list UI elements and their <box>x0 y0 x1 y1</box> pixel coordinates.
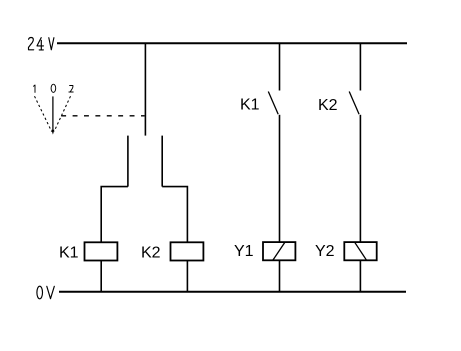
wire: left throw horizontal jog to K1 coil branch <box>101 187 128 243</box>
wire: K2 coil to 0V rail <box>186 261 188 293</box>
selector switch S1 dashed throw to position 2 <box>54 96 70 131</box>
net 0V rail label <box>37 286 54 299</box>
contact K2 normally-open blade <box>349 92 359 115</box>
svg-text:K1: K1 <box>59 244 79 261</box>
changeover contact throw contact 2 (right fixed contact) <box>161 136 163 187</box>
wire: 0V bottom power rail <box>59 291 406 293</box>
wire: K1 contact to Y1 coil <box>279 115 281 243</box>
wire: pole branch from 24V rail to changeover contact <box>144 43 146 135</box>
wire: branch 4 from 24V rail to K2 contact <box>359 43 361 90</box>
selector switch S1 dashed throw to position 1 <box>35 96 52 131</box>
selector switch S1 position label 0 <box>51 84 56 92</box>
solenoid valve coil Y2 box <box>344 242 376 260</box>
selector switch S1 position label 2 <box>69 86 73 93</box>
contact K1 normally-open blade <box>268 92 278 115</box>
svg-text:K2: K2 <box>318 97 338 114</box>
wire: Y2 coil to 0V rail <box>359 260 361 292</box>
wire: Y1 coil to 0V rail <box>279 260 281 292</box>
svg-text:K1: K1 <box>240 97 260 114</box>
relay coil K1 box <box>85 242 118 260</box>
svg-text:Y2: Y2 <box>315 243 335 260</box>
net 24V rail label <box>29 38 54 50</box>
changeover contact throw contact 1 (left fixed contact) <box>127 136 129 187</box>
solenoid valve coil Y1 box <box>263 242 295 260</box>
selector switch S1 pole lever (solid, position 0) <box>52 96 54 130</box>
svg-text:K2: K2 <box>141 244 161 261</box>
wire: K2 contact to Y2 coil <box>359 115 361 243</box>
svg-text:Y1: Y1 <box>234 243 254 260</box>
solenoid valve coil Y2 diagonal stroke <box>355 242 367 260</box>
wire: 24V top power rail <box>57 42 407 44</box>
relay coil K2 box <box>171 242 204 260</box>
wire: branch 3 from 24V rail to K1 contact <box>279 43 281 90</box>
wire: K1 coil to 0V rail <box>100 261 102 293</box>
dashed mechanical linkage from selector to changeover contact <box>61 115 144 117</box>
selector switch S1 position label 1 <box>34 85 36 92</box>
wire: right throw horizontal jog to K2 coil branch <box>162 187 187 243</box>
selector switch S1 pole arrow tip <box>51 130 54 135</box>
solenoid valve coil Y1 diagonal stroke <box>273 242 285 260</box>
